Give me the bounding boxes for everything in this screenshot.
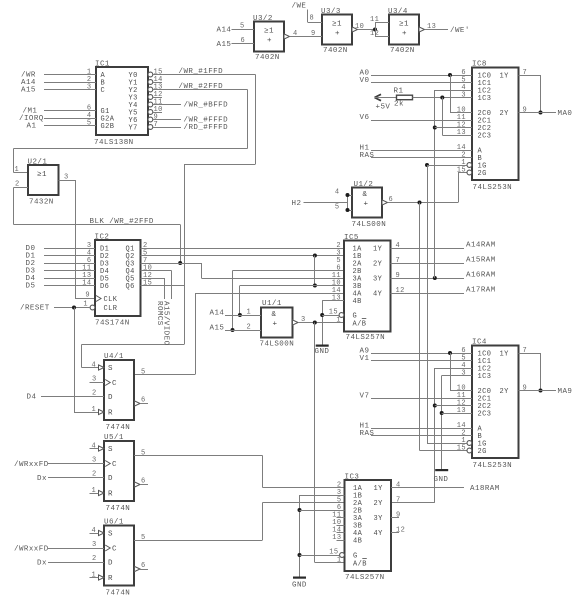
svg-text:+: + bbox=[364, 201, 369, 209]
svg-text:U4/1: U4/1 bbox=[104, 353, 124, 361]
svg-text:IC1: IC1 bbox=[95, 61, 110, 69]
svg-text:3: 3 bbox=[92, 541, 97, 549]
svg-text:1: 1 bbox=[336, 317, 341, 325]
svg-text:D: D bbox=[108, 560, 113, 568]
svg-text:7474N: 7474N bbox=[106, 505, 131, 513]
svg-text:3: 3 bbox=[92, 376, 97, 384]
svg-text:D: D bbox=[108, 394, 113, 402]
svg-text:S: S bbox=[108, 446, 113, 454]
svg-text:C: C bbox=[112, 380, 117, 388]
svg-text:74LS257N: 74LS257N bbox=[345, 574, 385, 582]
svg-text:1Y: 1Y bbox=[373, 245, 383, 253]
svg-text:/WRxxFD: /WRxxFD bbox=[14, 546, 49, 554]
svg-text:3: 3 bbox=[92, 457, 97, 465]
svg-text:7474N: 7474N bbox=[106, 590, 131, 598]
svg-text:MA9: MA9 bbox=[558, 388, 572, 396]
svg-text:IC2: IC2 bbox=[95, 234, 110, 242]
svg-text:1C3: 1C3 bbox=[478, 373, 492, 381]
svg-text:IC3: IC3 bbox=[345, 473, 360, 481]
svg-text:C: C bbox=[101, 87, 106, 95]
svg-text:7402N: 7402N bbox=[323, 47, 348, 55]
svg-text:7: 7 bbox=[396, 497, 401, 505]
svg-text:2: 2 bbox=[92, 555, 97, 563]
svg-text:R: R bbox=[108, 410, 113, 418]
svg-text:V7: V7 bbox=[360, 393, 370, 401]
svg-text:1: 1 bbox=[92, 571, 97, 579]
svg-text:2k: 2k bbox=[394, 101, 404, 109]
svg-text:H2: H2 bbox=[292, 200, 302, 208]
svg-text:4Y: 4Y bbox=[373, 290, 383, 298]
svg-text:A14RAM: A14RAM bbox=[466, 242, 496, 250]
svg-text:A15/VIDEO: A15/VIDEO bbox=[161, 301, 169, 346]
svg-text:&: & bbox=[363, 191, 368, 199]
svg-text:3: 3 bbox=[461, 92, 466, 100]
svg-text:3: 3 bbox=[87, 84, 92, 92]
svg-text:74LS138N: 74LS138N bbox=[94, 139, 134, 147]
svg-text:U1/2: U1/2 bbox=[354, 181, 374, 189]
svg-text:2Y: 2Y bbox=[373, 260, 383, 268]
svg-text:D4: D4 bbox=[27, 394, 37, 402]
svg-text:5: 5 bbox=[240, 23, 245, 31]
svg-text:D5: D5 bbox=[26, 283, 36, 291]
svg-text:9: 9 bbox=[523, 385, 528, 393]
svg-text:GND: GND bbox=[292, 582, 307, 590]
svg-text:74LS253N: 74LS253N bbox=[473, 184, 513, 192]
svg-text:A16RAM: A16RAM bbox=[466, 272, 496, 280]
svg-text:/WE: /WE bbox=[292, 3, 307, 11]
svg-text:8: 8 bbox=[310, 15, 315, 23]
svg-text:Q6: Q6 bbox=[126, 283, 135, 291]
svg-text:74LS00N: 74LS00N bbox=[352, 221, 387, 229]
svg-text:CLK: CLK bbox=[104, 296, 118, 304]
svg-text:4: 4 bbox=[92, 442, 97, 450]
svg-text:2C3: 2C3 bbox=[478, 410, 492, 418]
svg-text:/WR_#BFFD: /WR_#BFFD bbox=[184, 102, 229, 110]
svg-text:≥1: ≥1 bbox=[332, 21, 342, 29]
svg-text:GND: GND bbox=[434, 476, 449, 484]
svg-text:3: 3 bbox=[461, 370, 466, 378]
svg-text:4B: 4B bbox=[353, 298, 362, 306]
svg-text:2G: 2G bbox=[478, 448, 487, 456]
svg-text:CLR: CLR bbox=[104, 305, 118, 313]
svg-text:1C3: 1C3 bbox=[478, 95, 492, 103]
svg-text:V1: V1 bbox=[360, 355, 370, 363]
svg-text:A1: A1 bbox=[27, 123, 37, 131]
svg-text:U2/1: U2/1 bbox=[28, 159, 48, 167]
svg-text:C: C bbox=[112, 461, 117, 469]
svg-text:V0: V0 bbox=[360, 77, 370, 85]
svg-text:2: 2 bbox=[247, 324, 252, 332]
svg-text:/WR_#1FFD: /WR_#1FFD bbox=[179, 68, 224, 76]
svg-text:G2B: G2B bbox=[101, 123, 115, 131]
svg-text:15: 15 bbox=[457, 445, 466, 453]
svg-text:A15: A15 bbox=[217, 41, 232, 49]
svg-text:≥1: ≥1 bbox=[37, 171, 47, 179]
svg-text:9: 9 bbox=[311, 30, 316, 38]
svg-text:74LS00N: 74LS00N bbox=[260, 341, 295, 349]
svg-text:GND: GND bbox=[315, 348, 330, 356]
svg-text:5: 5 bbox=[87, 120, 92, 128]
svg-text:13: 13 bbox=[332, 295, 341, 303]
svg-text:12: 12 bbox=[370, 30, 379, 38]
svg-text:10: 10 bbox=[355, 23, 364, 31]
svg-text:+: + bbox=[402, 30, 407, 38]
svg-text:A15: A15 bbox=[21, 87, 36, 95]
svg-text:BLK /WR_#2FFD: BLK /WR_#2FFD bbox=[90, 218, 154, 226]
svg-text:14: 14 bbox=[82, 280, 91, 288]
svg-text:4Y: 4Y bbox=[374, 530, 384, 538]
svg-text:4B: 4B bbox=[353, 537, 362, 545]
svg-text:&: & bbox=[272, 311, 277, 319]
svg-text:4: 4 bbox=[396, 482, 401, 490]
svg-text:11: 11 bbox=[370, 16, 379, 24]
svg-text:2G: 2G bbox=[478, 170, 487, 178]
svg-text:RAS: RAS bbox=[360, 430, 375, 438]
svg-text:74LS257N: 74LS257N bbox=[346, 334, 386, 342]
svg-text:15: 15 bbox=[457, 167, 466, 175]
svg-text:+: + bbox=[273, 321, 278, 329]
svg-text:3Y: 3Y bbox=[374, 515, 384, 523]
svg-text:3Y: 3Y bbox=[373, 275, 383, 283]
svg-text:A17RAM: A17RAM bbox=[466, 287, 496, 295]
svg-text:1Y: 1Y bbox=[500, 72, 510, 80]
svg-text:A/B: A/B bbox=[353, 320, 367, 328]
svg-text:U3/4: U3/4 bbox=[388, 8, 408, 16]
svg-text:+: + bbox=[335, 30, 340, 38]
svg-text:D6: D6 bbox=[100, 283, 109, 291]
svg-text:/RESET: /RESET bbox=[20, 305, 50, 313]
svg-text:7402N: 7402N bbox=[390, 47, 415, 55]
svg-text:S: S bbox=[108, 531, 113, 539]
svg-text:RAS: RAS bbox=[360, 152, 375, 160]
svg-text:74LS253N: 74LS253N bbox=[473, 462, 513, 470]
svg-text:Dx: Dx bbox=[37, 475, 47, 483]
svg-text:13: 13 bbox=[427, 23, 436, 31]
svg-text:2: 2 bbox=[92, 390, 97, 398]
svg-text:7474N: 7474N bbox=[106, 424, 131, 432]
svg-text:5: 5 bbox=[141, 449, 146, 457]
svg-text:7402N: 7402N bbox=[255, 54, 280, 62]
svg-text:2Y: 2Y bbox=[500, 388, 510, 396]
svg-text:15: 15 bbox=[143, 280, 152, 288]
svg-text:A14: A14 bbox=[210, 310, 225, 318]
svg-text:2Y: 2Y bbox=[500, 110, 510, 118]
svg-text:R: R bbox=[108, 575, 113, 583]
svg-text:R: R bbox=[108, 491, 113, 499]
svg-text:3: 3 bbox=[301, 316, 306, 324]
svg-text:4: 4 bbox=[92, 361, 97, 369]
svg-text:+: + bbox=[267, 37, 272, 45]
svg-text:1: 1 bbox=[15, 166, 20, 174]
svg-text:V6: V6 bbox=[360, 114, 370, 122]
svg-text:U6/1: U6/1 bbox=[104, 519, 124, 527]
svg-text:G: G bbox=[353, 553, 358, 561]
svg-text:1Y: 1Y bbox=[500, 350, 510, 358]
svg-text:7432N: 7432N bbox=[29, 199, 54, 207]
svg-text:U3/2: U3/2 bbox=[253, 15, 273, 23]
svg-text:+5V: +5V bbox=[376, 103, 391, 111]
svg-text:Dx: Dx bbox=[37, 560, 47, 568]
svg-text:/RD_#FFFD: /RD_#FFFD bbox=[184, 124, 229, 132]
svg-text:4: 4 bbox=[293, 30, 298, 38]
svg-text:/WRxxFD: /WRxxFD bbox=[14, 461, 49, 469]
svg-text:A/B: A/B bbox=[353, 560, 367, 568]
svg-text:1: 1 bbox=[247, 309, 252, 317]
svg-text:6: 6 bbox=[141, 562, 146, 570]
svg-text:6: 6 bbox=[141, 478, 146, 486]
svg-text:U5/1: U5/1 bbox=[104, 434, 124, 442]
svg-text:Y7: Y7 bbox=[129, 124, 138, 132]
svg-text:2C3: 2C3 bbox=[478, 132, 492, 140]
svg-text:A18RAM: A18RAM bbox=[470, 485, 500, 493]
svg-text:9: 9 bbox=[396, 512, 401, 520]
svg-text:S: S bbox=[108, 365, 113, 373]
svg-text:R1: R1 bbox=[394, 88, 404, 96]
svg-text:A15RAM: A15RAM bbox=[466, 257, 496, 265]
svg-text:/WE': /WE' bbox=[450, 27, 470, 35]
svg-text:9: 9 bbox=[523, 107, 528, 115]
svg-text:2: 2 bbox=[92, 471, 97, 479]
svg-text:IC8: IC8 bbox=[472, 61, 487, 69]
svg-text:9: 9 bbox=[85, 292, 90, 300]
svg-text:5: 5 bbox=[141, 368, 146, 376]
svg-text:1Y: 1Y bbox=[374, 485, 384, 493]
svg-text:C: C bbox=[112, 546, 117, 554]
svg-text:2Y: 2Y bbox=[374, 500, 384, 508]
svg-text:A15: A15 bbox=[210, 325, 225, 333]
svg-text:U3/3: U3/3 bbox=[321, 8, 341, 16]
svg-text:MA0: MA0 bbox=[558, 110, 572, 118]
svg-text:U1/1: U1/1 bbox=[262, 300, 282, 308]
svg-text:IC5: IC5 bbox=[344, 234, 359, 242]
svg-text:74S174N: 74S174N bbox=[95, 320, 130, 328]
svg-text:G: G bbox=[353, 313, 358, 321]
svg-text:4: 4 bbox=[335, 189, 340, 197]
svg-text:D: D bbox=[108, 475, 113, 483]
svg-text:IC4: IC4 bbox=[472, 339, 487, 347]
svg-text:5: 5 bbox=[335, 204, 340, 212]
svg-text:≥1: ≥1 bbox=[399, 21, 409, 29]
svg-text:1: 1 bbox=[337, 557, 342, 565]
svg-text:/WR_#2FFD: /WR_#2FFD bbox=[179, 83, 224, 91]
svg-text:6: 6 bbox=[241, 37, 246, 45]
svg-text:≥1: ≥1 bbox=[264, 28, 274, 36]
svg-text:12: 12 bbox=[396, 527, 405, 535]
svg-text:A14: A14 bbox=[217, 27, 232, 35]
svg-text:6: 6 bbox=[141, 397, 146, 405]
